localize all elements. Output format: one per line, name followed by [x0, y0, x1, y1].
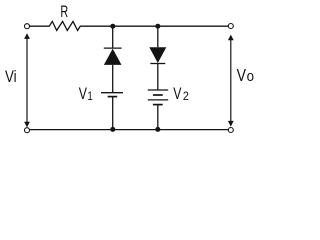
svg-text:2: 2: [183, 89, 189, 103]
svg-text:V: V: [173, 85, 181, 103]
svg-text:Vi: Vi: [5, 67, 17, 86]
svg-text:V: V: [79, 85, 87, 103]
svg-text:R: R: [60, 2, 68, 21]
svg-text:1: 1: [87, 89, 93, 103]
svg-text:o: o: [247, 68, 254, 85]
svg-text:V: V: [237, 65, 247, 85]
